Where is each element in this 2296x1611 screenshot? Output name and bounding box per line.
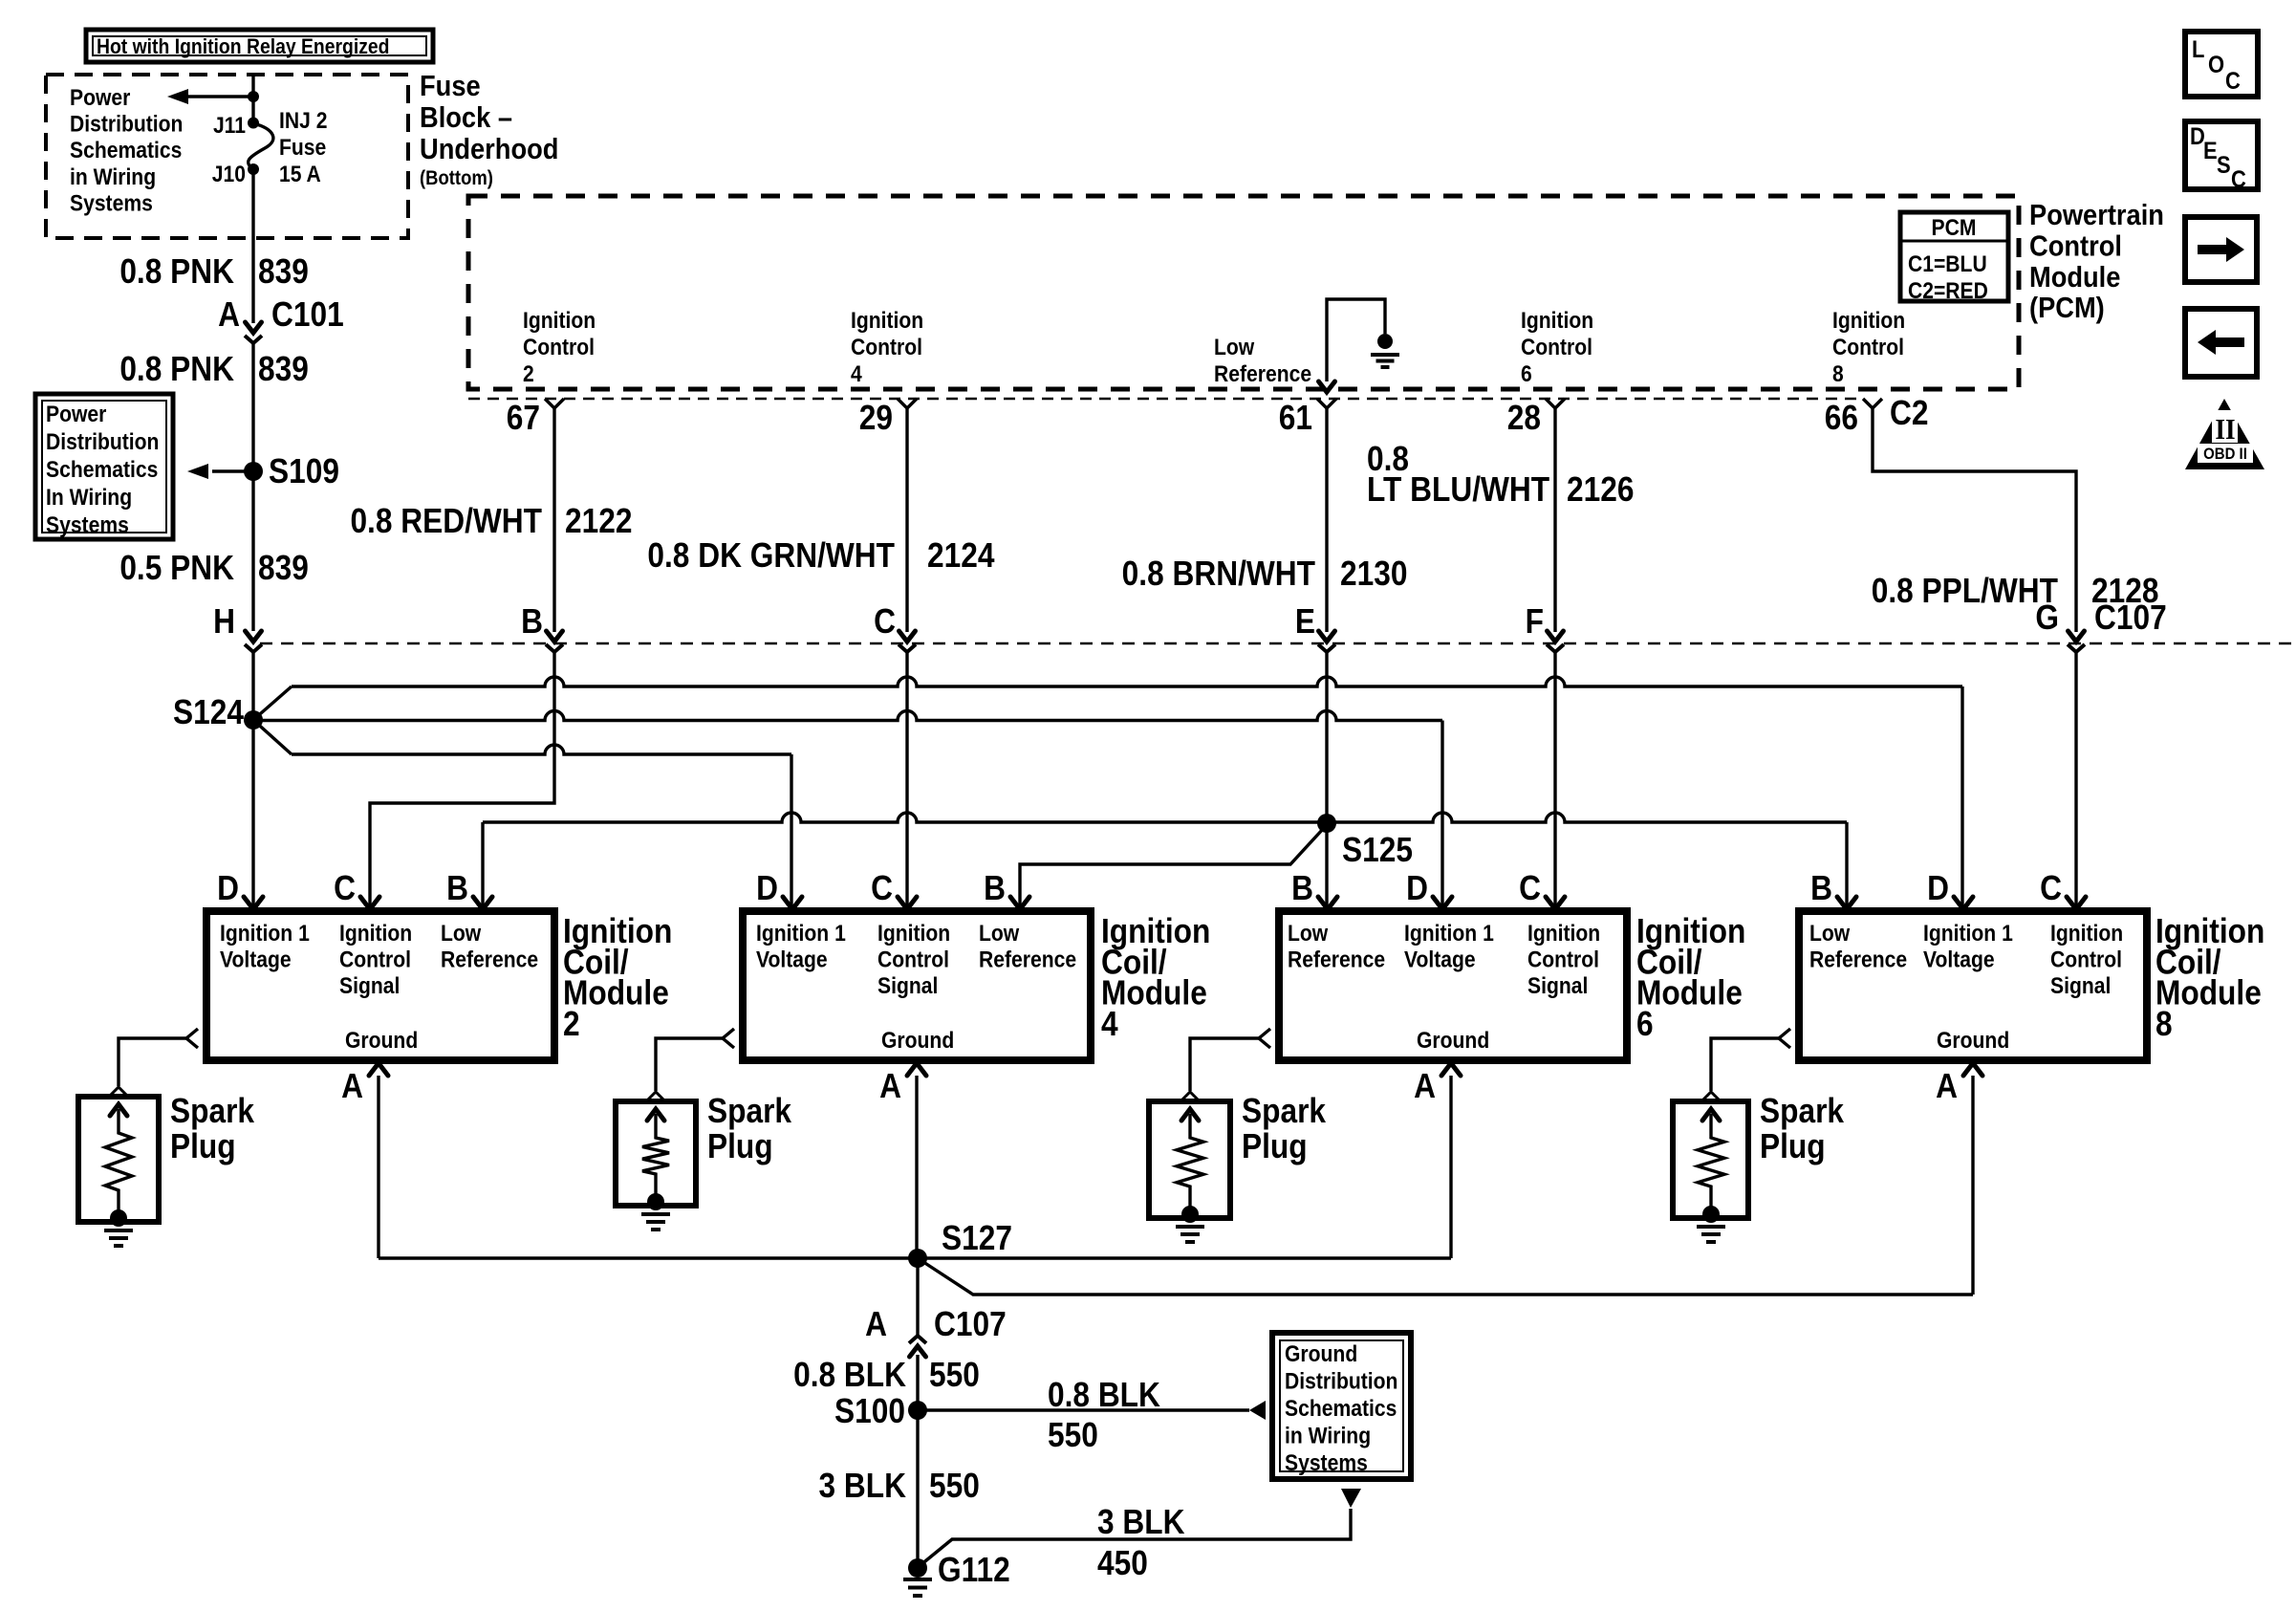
PCM pin 66 connector fork	[1863, 399, 1882, 408]
svg-text:Underhood: Underhood	[420, 133, 558, 165]
icon: forward arrow box	[2185, 217, 2257, 282]
svg-text:Systems: Systems	[46, 512, 129, 538]
label S124	[173, 693, 244, 731]
text: Power Distribution Schematics in Wiring Systems (fuse block)	[70, 85, 183, 216]
svg-text:Plug: Plug	[707, 1127, 773, 1165]
svg-text:B: B	[446, 869, 468, 907]
wire: ignition 1 voltage branch to module 8 D	[253, 677, 1962, 906]
splice S125 dot	[1317, 814, 1336, 833]
wire: module output to spark plug 2	[656, 1038, 725, 1091]
svg-text:3 BLK: 3 BLK	[1097, 1503, 1185, 1541]
svg-text:0.8 BRN/WHT: 0.8 BRN/WHT	[1122, 555, 1316, 593]
svg-text:0.8 BLK: 0.8 BLK	[1048, 1376, 1160, 1414]
svg-text:Ground: Ground	[1937, 1028, 2009, 1054]
ignition coil/module 4 pin labels	[756, 921, 1076, 1054]
spark plug 3 box	[1149, 1101, 1230, 1218]
connector C107 crossing at pin E	[1318, 631, 1335, 652]
PCM pin 61 connector fork	[1317, 399, 1336, 408]
spark plug 2 ground dot	[647, 1193, 664, 1210]
svg-text:8: 8	[2155, 1005, 2173, 1043]
svg-text:Ignition: Ignition	[339, 921, 412, 947]
PCM pin 28 connector fork	[1546, 399, 1565, 408]
label: Ignition Coil/Module 6	[1636, 912, 1745, 1043]
connector C2 dashed line	[468, 398, 1862, 401]
PCM pin label: Ignition Control 6	[1521, 308, 1593, 387]
svg-text:OBD II: OBD II	[2203, 446, 2247, 463]
module 6 pin B letter B	[1291, 869, 1313, 907]
pin number 67	[507, 399, 540, 437]
module 8 pin A letter A	[1936, 1067, 1958, 1105]
label 0.8 DK GRN/WHT	[647, 536, 895, 575]
svg-text:J11: J11	[213, 113, 246, 139]
wire: 0.8 PNK 839 from fuse J10 to C101	[251, 169, 254, 323]
svg-text:Ground: Ground	[345, 1028, 418, 1054]
connector chevron at module edge (spark plug 3)	[1259, 1029, 1270, 1048]
wire: ignition control 8 from C107 G to module 8 C	[2074, 652, 2077, 906]
svg-text:Control: Control	[339, 947, 411, 972]
PCM pin label: Ignition Control 4	[851, 308, 923, 387]
module 2 pin A letter A	[341, 1067, 363, 1105]
label 450	[1097, 1544, 1148, 1582]
spark plug 4 ground dot	[1702, 1206, 1720, 1223]
svg-text:Reference: Reference	[1809, 947, 1907, 972]
svg-text:In Wiring: In Wiring	[46, 485, 132, 511]
pin number 66	[1825, 399, 1858, 437]
label 3 BLK (450 wire)	[1097, 1503, 1185, 1541]
label S109	[269, 452, 339, 490]
PCM pin label: Low Reference	[1214, 335, 1311, 387]
pin J10 dot	[248, 163, 259, 175]
svg-text:C107: C107	[2094, 599, 2167, 637]
wire: low reference S125 to module 6 B	[1325, 823, 1328, 906]
svg-text:Reference: Reference	[1214, 361, 1311, 387]
wire: low reference branch to module 4 B	[1020, 828, 1324, 906]
svg-text:Ground: Ground	[1285, 1341, 1357, 1367]
label C2	[1890, 394, 1928, 432]
module 8 pin C letter C	[2040, 869, 2062, 907]
svg-text:Systems: Systems	[70, 190, 153, 216]
ignition coil/module 6 box	[1279, 911, 1627, 1060]
module 8 pin D arrow	[1954, 897, 1973, 909]
connector C107 A crossing (upward)	[909, 1336, 926, 1357]
svg-text:Control: Control	[523, 335, 595, 360]
module 2 pin C arrow	[360, 897, 379, 909]
svg-text:Powertrain: Powertrain	[2029, 199, 2164, 231]
label 839 (2)	[258, 350, 309, 388]
svg-text:C: C	[334, 869, 356, 907]
wire: 0.8 BLK 550 from C107 A to S100	[916, 1355, 919, 1410]
label Spark Plug 3	[1242, 1092, 1326, 1165]
svg-text:S: S	[2217, 152, 2231, 179]
svg-text:Low: Low	[979, 921, 1020, 947]
svg-text:Plug: Plug	[170, 1127, 236, 1165]
label J10	[212, 162, 246, 187]
svg-text:29: 29	[859, 399, 893, 437]
svg-text:Low: Low	[441, 921, 482, 947]
svg-text:INJ 2: INJ 2	[279, 108, 327, 134]
svg-text:Control: Control	[2029, 230, 2122, 263]
svg-text:A: A	[341, 1067, 363, 1105]
PCM connector id box (PCM / C1=BLU / C2=RED)	[1900, 212, 2008, 303]
splice S127 dot	[908, 1249, 927, 1268]
svg-text:2122: 2122	[565, 502, 632, 540]
svg-text:C: C	[2231, 166, 2246, 193]
svg-text:3 BLK: 3 BLK	[819, 1467, 907, 1505]
svg-text:S124: S124	[173, 693, 244, 731]
PCM pin label: Ignition Control 2	[523, 308, 596, 387]
fuse block dashed outline	[46, 75, 408, 238]
label Spark Plug 2	[707, 1092, 791, 1165]
ignition coil/module 2 box	[206, 911, 554, 1060]
svg-text:G112: G112	[938, 1551, 1010, 1589]
fuse F1 INJ 2 15A element (J11-J10)	[249, 123, 273, 169]
svg-text:Power: Power	[46, 402, 107, 427]
svg-text:Fuse: Fuse	[420, 70, 481, 102]
PCM pin label: Ignition Control 8	[1832, 308, 1905, 387]
svg-text:2124: 2124	[927, 536, 995, 575]
svg-text:Spark: Spark	[707, 1092, 791, 1130]
label INJ 2 Fuse 15 A	[279, 108, 327, 187]
PCM pin 67 connector fork	[545, 399, 564, 408]
pin number 61	[1279, 399, 1312, 437]
svg-text:B: B	[984, 869, 1006, 907]
svg-text:PCM: PCM	[1932, 215, 1977, 241]
spark plug 3 ground symbol	[1176, 1227, 1204, 1242]
svg-text:Module: Module	[2029, 261, 2120, 294]
label Spark Plug 4	[1760, 1092, 1844, 1165]
svg-text:Ground: Ground	[881, 1028, 954, 1054]
label 3 BLK	[819, 1467, 907, 1505]
module 6 pin A letter A	[1414, 1067, 1436, 1105]
svg-text:0.8 PNK: 0.8 PNK	[119, 252, 234, 291]
pin J11 dot	[248, 118, 259, 129]
wire: module output to spark plug 1	[119, 1038, 188, 1086]
svg-text:0.8 PNK: 0.8 PNK	[119, 350, 234, 388]
svg-text:Voltage: Voltage	[1923, 947, 1995, 972]
module 4 pin A letter A	[879, 1067, 901, 1105]
svg-text:Power: Power	[70, 85, 131, 111]
connector C107 crossing at pin F	[1547, 631, 1564, 652]
label 0.8 RED/WHT	[350, 502, 542, 540]
label 2122	[565, 502, 632, 540]
junction dot at relay feed	[248, 91, 259, 102]
svg-text:D: D	[1406, 869, 1428, 907]
ignition coil/module 2 pin labels	[220, 921, 538, 1054]
spark plug 1 ground dot	[110, 1209, 127, 1227]
label E (C107 pin)	[1295, 602, 1315, 641]
svg-text:Ignition: Ignition	[1832, 308, 1905, 334]
label box: Ground Distribution Schematics in Wiring Systems	[1272, 1333, 1411, 1479]
pin number 28	[1507, 399, 1541, 437]
wire: ignition control 6 from C107 F to module 6 C	[1553, 652, 1556, 906]
connector C107 dashed line	[260, 642, 2296, 645]
svg-text:D: D	[756, 869, 778, 907]
module 4 pin C arrow	[898, 897, 917, 909]
connector chevron at spark plug 1	[110, 1087, 127, 1096]
ignition coil/module 6 pin labels	[1288, 921, 1600, 1054]
icon: OBD II triangle	[2185, 399, 2264, 469]
label 0.8 PNK (2)	[119, 350, 234, 388]
svg-text:S100: S100	[834, 1392, 905, 1430]
svg-text:S125: S125	[1342, 831, 1413, 869]
svg-text:15 A: 15 A	[279, 162, 321, 187]
icon: LOC box	[2185, 32, 2258, 97]
connector C101 crossing symbol	[245, 322, 262, 343]
spark plug 1 box	[78, 1097, 159, 1222]
svg-text:Voltage: Voltage	[220, 947, 292, 972]
svg-text:2130: 2130	[1340, 555, 1407, 593]
label 550 (horizontal)	[1048, 1416, 1098, 1454]
svg-text:E: E	[2203, 138, 2218, 164]
spark plug 1 ground symbol	[104, 1230, 133, 1246]
svg-text:Spark: Spark	[1242, 1092, 1326, 1130]
svg-text:Distribution: Distribution	[70, 111, 183, 137]
module 2 pin C letter C	[334, 869, 356, 907]
splice S109 dot	[244, 462, 263, 481]
svg-text:Ignition 1: Ignition 1	[756, 921, 846, 947]
wire: ground bus module 2 A to module 6 A	[379, 1256, 1451, 1259]
svg-text:A: A	[1414, 1067, 1436, 1105]
connector C107 crossing at pin B	[546, 631, 563, 652]
svg-text:D: D	[1927, 869, 1949, 907]
wire: 0.8 RED/WHT 2122 (pin 67 to C107 B)	[552, 408, 555, 632]
module 6 pin C arrow	[1546, 897, 1565, 909]
svg-text:F: F	[1526, 602, 1544, 641]
label 2124	[927, 536, 995, 575]
connector chevron at spark plug 2	[647, 1092, 664, 1100]
spark plug 3 resistor element	[1177, 1109, 1203, 1214]
svg-text:Distribution: Distribution	[1285, 1368, 1397, 1394]
wire: ignition 1 voltage branch to module 4 D	[253, 720, 791, 906]
svg-text:2: 2	[563, 1005, 580, 1043]
wire: 0.8 PNK 839 from C101 to S109	[251, 344, 254, 471]
svg-text:Control: Control	[1832, 335, 1904, 360]
splice S124 dot	[244, 710, 263, 729]
svg-text:B: B	[1810, 869, 1832, 907]
svg-text:Schematics: Schematics	[70, 138, 182, 163]
module 6 pin D letter D	[1406, 869, 1428, 907]
svg-text:Low: Low	[1288, 921, 1329, 947]
label C101	[271, 295, 344, 334]
svg-text:Ignition: Ignition	[1521, 308, 1593, 334]
svg-text:Signal: Signal	[2050, 973, 2111, 999]
wire: module output to spark plug 4	[1711, 1038, 1781, 1091]
svg-text:66: 66	[1825, 399, 1858, 437]
svg-text:550: 550	[929, 1356, 980, 1394]
svg-text:C107: C107	[934, 1305, 1007, 1343]
wire: PNK from C107 H to S124	[251, 652, 254, 720]
svg-text:II: II	[2215, 413, 2235, 446]
wire: 3 BLK 550 from S100 to G112	[916, 1410, 919, 1560]
svg-text:C: C	[1519, 869, 1541, 907]
label 2130	[1340, 555, 1407, 593]
svg-text:4: 4	[1101, 1005, 1118, 1043]
module 8 pin A arrow	[1963, 1063, 1982, 1295]
svg-text:Plug: Plug	[1242, 1127, 1308, 1165]
svg-text:Ignition: Ignition	[851, 308, 923, 334]
svg-text:D: D	[217, 869, 239, 907]
svg-text:67: 67	[507, 399, 540, 437]
svg-text:550: 550	[929, 1467, 980, 1505]
wire: 0.8 BRN/WHT 2130 (pin 61 to C107 E)	[1325, 408, 1328, 632]
module 6 pin C letter C	[1519, 869, 1541, 907]
svg-text:C: C	[2040, 869, 2062, 907]
module 2 pin B letter B	[446, 869, 468, 907]
svg-text:Control: Control	[2050, 947, 2122, 972]
svg-text:C1=BLU: C1=BLU	[1908, 251, 1987, 277]
svg-text:C2: C2	[1890, 394, 1928, 432]
label G112	[938, 1551, 1010, 1589]
svg-text:Ignition 1: Ignition 1	[1923, 921, 2013, 947]
svg-text:Ignition: Ignition	[1527, 921, 1600, 947]
svg-text:Reference: Reference	[1288, 947, 1385, 972]
svg-text:Hot with Ignition Relay Energi: Hot with Ignition Relay Energized	[97, 35, 389, 58]
connector chevron at spark plug 4	[1702, 1092, 1720, 1100]
module 4 pin D letter D	[756, 869, 778, 907]
connector chevron at module edge (spark plug 4)	[1779, 1029, 1790, 1048]
wire: 3 BLK 450 from G112 to ground distribution	[921, 1489, 1361, 1565]
ignition coil/module 4 box	[743, 911, 1091, 1060]
module 8 pin B arrow	[1837, 897, 1856, 909]
module 2 pin D arrow	[244, 897, 263, 909]
svg-text:Ignition 1: Ignition 1	[1404, 921, 1494, 947]
module 4 pin C letter C	[871, 869, 893, 907]
svg-text:Low: Low	[1214, 335, 1255, 360]
arrow: to power distribution schematics	[167, 89, 253, 104]
label C (C107 pin)	[874, 602, 896, 641]
svg-text:Control: Control	[877, 947, 949, 972]
module 4 pin D arrow	[783, 897, 802, 909]
wire: low reference bus S125 to module 8 B	[1327, 813, 1847, 906]
icon: back arrow box	[2185, 309, 2257, 377]
label 550	[929, 1356, 980, 1394]
connector C107 crossing at pin C	[899, 631, 916, 652]
label 0.5 PNK	[119, 549, 234, 587]
spark plug 1 resistor element	[105, 1104, 132, 1218]
spark plug 2 resistor element	[642, 1109, 669, 1202]
PCM dashed outline (Powertrain Control Module)	[468, 196, 2019, 389]
label H (C107 pin)	[213, 602, 235, 641]
svg-text:S127: S127	[942, 1219, 1012, 1257]
svg-text:(PCM): (PCM)	[2029, 293, 2105, 325]
module 8 pin D letter D	[1927, 869, 1949, 907]
svg-text:(Bottom): (Bottom)	[420, 167, 493, 189]
label A (C107 pin A)	[865, 1305, 887, 1343]
svg-text:28: 28	[1507, 399, 1541, 437]
svg-text:0.8 RED/WHT: 0.8 RED/WHT	[350, 502, 542, 540]
module 6 pin A arrow	[1441, 1063, 1461, 1258]
svg-text:0.8 PPL/WHT: 0.8 PPL/WHT	[1872, 572, 2059, 610]
wire: ignition 1 voltage branch to module 6 D	[253, 711, 1442, 907]
module 4 pin B letter B	[984, 869, 1006, 907]
connector C107 crossing at pin G	[2068, 631, 2085, 652]
icon: DESC box	[2185, 121, 2258, 192]
connector chevron at spark plug 3	[1181, 1092, 1199, 1100]
label 839	[258, 252, 309, 291]
svg-text:Ignition: Ignition	[523, 308, 596, 334]
connector C107 crossing at pin H	[245, 631, 262, 652]
label 2126	[1567, 470, 1634, 509]
svg-text:A: A	[218, 295, 240, 334]
PCM internal ground symbol	[1371, 334, 1399, 367]
svg-text:Block –: Block –	[420, 101, 512, 134]
arrow: S109 to power distribution schematics	[187, 464, 253, 479]
svg-text:0.8 BLK: 0.8 BLK	[793, 1356, 906, 1394]
svg-text:0.8 DK GRN/WHT: 0.8 DK GRN/WHT	[647, 536, 895, 575]
label A (C101 pin)	[218, 295, 240, 334]
module 2 pin B arrow	[473, 897, 492, 909]
label J11	[213, 113, 246, 139]
svg-text:Distribution: Distribution	[46, 429, 159, 455]
svg-text:8: 8	[1832, 361, 1844, 387]
svg-text:Fuse: Fuse	[279, 135, 326, 161]
svg-text:B: B	[1291, 869, 1313, 907]
svg-text:G: G	[2035, 599, 2059, 637]
ground G112 symbol	[903, 1579, 932, 1596]
spark plug 4 resistor element	[1698, 1109, 1724, 1214]
label S125	[1342, 831, 1413, 869]
ignition coil/module 8 pin labels	[1809, 921, 2123, 1054]
svg-text:Ignition: Ignition	[877, 921, 950, 947]
wire: 0.5 PNK 839 from S109 to C107 pin H	[251, 471, 254, 631]
PCM pin 29 connector fork	[898, 399, 917, 408]
spark plug 3 ground dot	[1181, 1206, 1199, 1223]
svg-text:Ignition: Ignition	[2050, 921, 2123, 947]
svg-text:61: 61	[1279, 399, 1312, 437]
svg-text:in Wiring: in Wiring	[1285, 1423, 1371, 1448]
svg-text:A: A	[865, 1305, 887, 1343]
label: Ignition Coil/Module 8	[2155, 912, 2264, 1043]
wire: ground branch to module 8 A	[918, 1258, 1973, 1295]
svg-text:H: H	[213, 602, 235, 641]
svg-text:2126: 2126	[1567, 470, 1634, 509]
label S127	[942, 1219, 1012, 1257]
wire: low reference bus S125 to module 2 B	[483, 813, 1327, 906]
label C107 (connector)	[2094, 599, 2167, 637]
svg-text:Schematics: Schematics	[1285, 1396, 1397, 1422]
wire: 0.8 DK GRN/WHT 2124 (pin 29 to C107 C)	[905, 408, 908, 632]
svg-text:4: 4	[851, 361, 862, 387]
label 839 (3)	[258, 549, 309, 587]
svg-text:Spark: Spark	[170, 1092, 254, 1130]
module 8 pin C arrow	[2067, 897, 2086, 909]
PCM internal arrow into pin 61	[1319, 381, 1335, 392]
wire: 0.8 BLK 550 from S100 to ground distribution	[918, 1401, 1266, 1420]
svg-text:Reference: Reference	[441, 947, 538, 972]
wire: low reference from C107 E to splice S125	[1325, 652, 1328, 823]
module 4 pin A arrow	[907, 1063, 926, 1258]
svg-text:6: 6	[1636, 1005, 1654, 1043]
label 0.8 PNK	[119, 252, 234, 291]
svg-text:C: C	[871, 869, 893, 907]
svg-text:O: O	[2208, 52, 2224, 78]
wire: module output to spark plug 3	[1190, 1038, 1261, 1091]
svg-text:839: 839	[258, 350, 309, 388]
connector chevron at module edge (spark plug 2)	[723, 1029, 734, 1048]
label: Fuse Block - Underhood	[420, 70, 558, 189]
connector chevron at module edge (spark plug 1)	[186, 1029, 198, 1048]
svg-text:550: 550	[1048, 1416, 1098, 1454]
label 0.8 BLK	[793, 1356, 906, 1394]
svg-text:C2=RED: C2=RED	[1908, 278, 1988, 304]
label: Ignition Coil/Module 4	[1101, 912, 1210, 1043]
svg-text:J10: J10	[212, 162, 246, 187]
wire: ignition control 2 from C107 B to module 2 C	[370, 652, 554, 906]
svg-text:6: 6	[1521, 361, 1532, 387]
svg-text:C101: C101	[271, 295, 344, 334]
svg-text:Spark: Spark	[1760, 1092, 1844, 1130]
svg-text:E: E	[1295, 602, 1315, 641]
